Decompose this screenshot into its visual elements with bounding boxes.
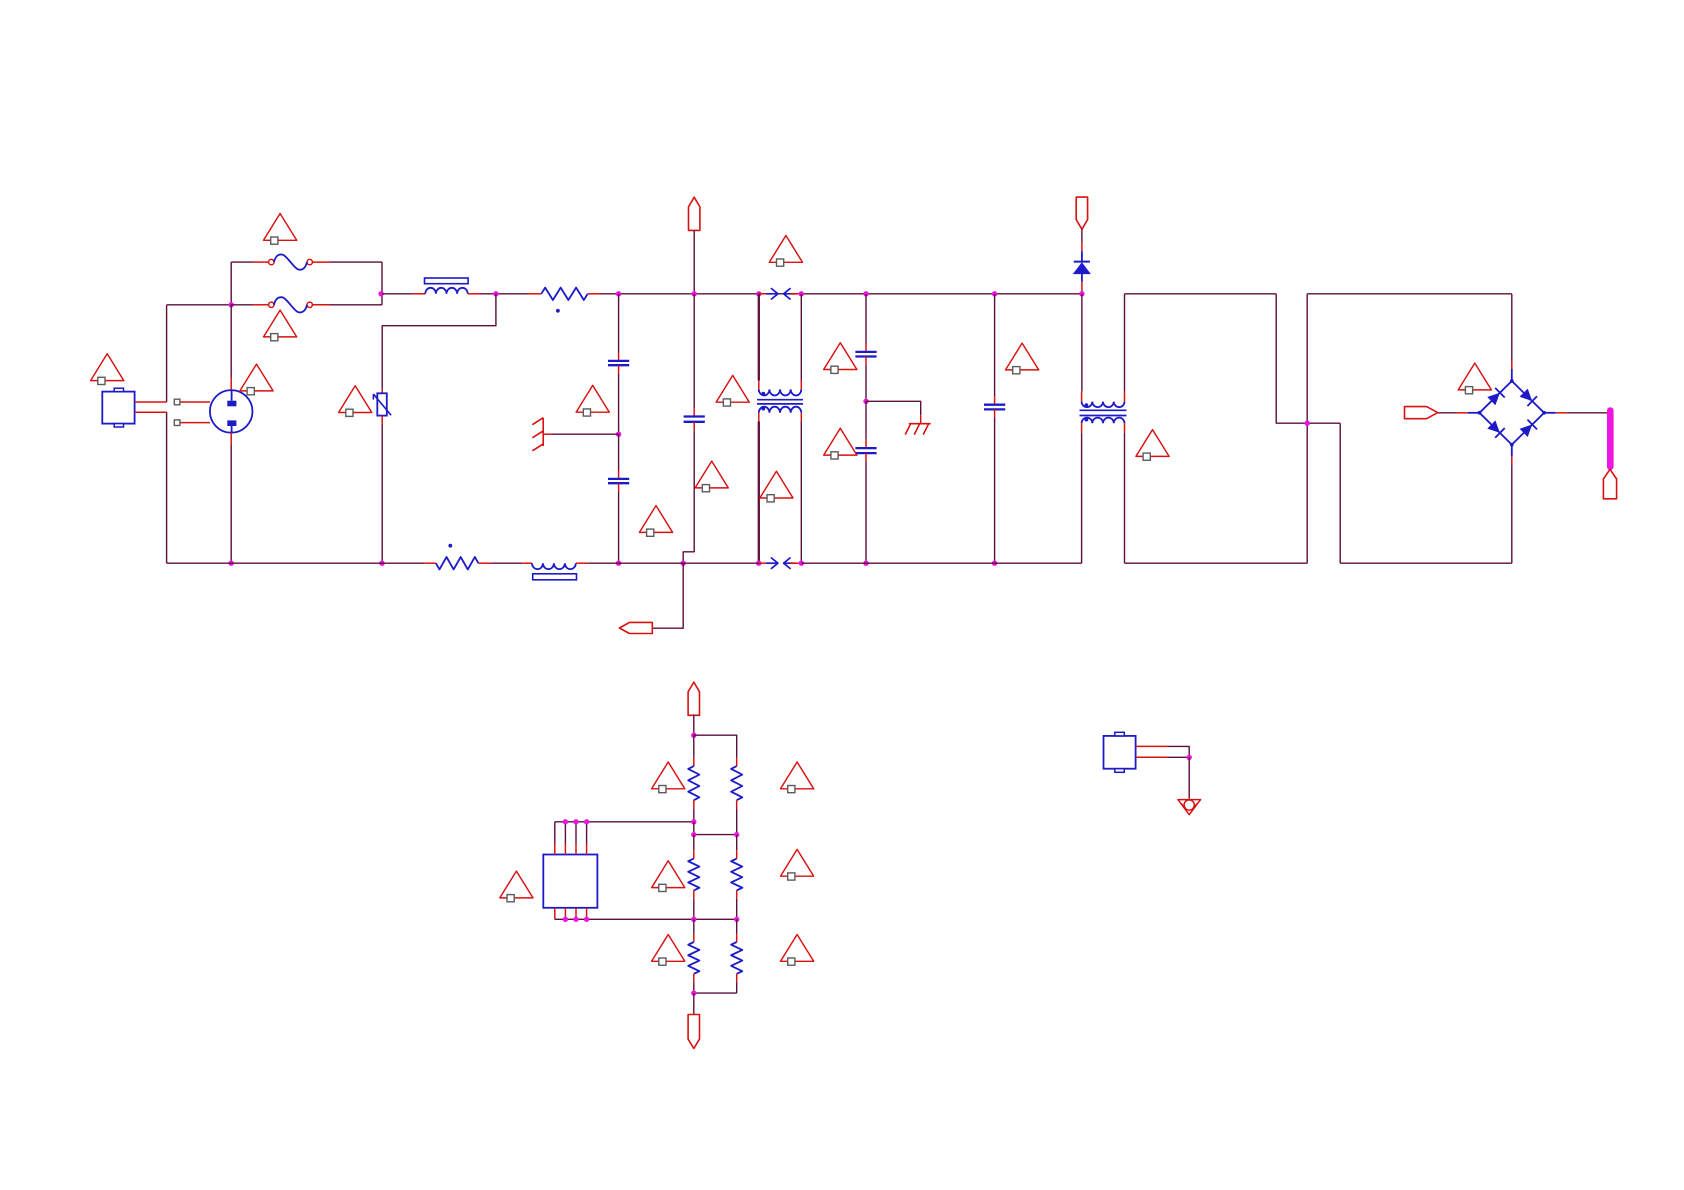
warning triangle below F2 xyxy=(264,310,297,337)
wire flag to D1 xyxy=(1081,229,1083,242)
wire IC top bus xyxy=(555,821,694,823)
wire T2 secondary right down xyxy=(1124,433,1126,563)
fuse F1 xyxy=(269,259,274,264)
pin C4 top xyxy=(865,344,867,352)
net flag (down) above D1 xyxy=(1076,197,1087,229)
wire U1 top pin 4 to bus xyxy=(586,822,588,844)
junction at jog crossing xyxy=(1305,421,1310,426)
junction lamp bottom on rail xyxy=(229,561,234,566)
bridge diode bottom-right xyxy=(1520,425,1533,438)
warning triangle chain MR xyxy=(781,849,814,876)
bridge bottom lead xyxy=(1511,445,1513,457)
pin R4 (right chain 1) pin2 xyxy=(736,800,738,808)
resistor R6 (right chain 2) xyxy=(731,859,742,891)
pin resistor R1 pin1 xyxy=(528,293,541,295)
resistor R3 (left chain 1) xyxy=(688,766,699,800)
pin T2 secondary left xyxy=(1081,423,1083,433)
wire bridge bottom to rail xyxy=(1511,465,1513,564)
pin fuse F1 pin 1 xyxy=(253,261,269,263)
bridge diode left-bottom xyxy=(1487,420,1500,433)
wire U1 bottom pin 1 to bus corner xyxy=(554,917,556,920)
wire fuse-block right vertical xyxy=(381,262,383,305)
T1 primary dot xyxy=(761,392,765,396)
pin T2 primary left xyxy=(1081,392,1083,402)
wire bottom link xyxy=(694,992,737,994)
pin U1 top pin 4 xyxy=(586,844,588,855)
transformer T1 primary winding xyxy=(759,389,802,395)
pin C4 bottom xyxy=(865,357,867,365)
wire bottom rail seg B xyxy=(492,562,523,564)
chevron > top xyxy=(771,288,778,299)
wire chassis gnd to C1C2 node xyxy=(552,433,619,435)
wire J1 pin2 down to bottom rail xyxy=(166,412,168,563)
junction rail left of gap xyxy=(756,291,761,296)
pin C1 bottom xyxy=(618,365,620,373)
junction flag stem on rail xyxy=(692,291,697,296)
wire R8 (right chain 3) bottom lead xyxy=(736,982,738,993)
wire T1 primary right down xyxy=(800,294,802,381)
junction J2 node xyxy=(1187,755,1192,760)
T1 secondary dot xyxy=(761,407,765,411)
pin T1 primary right xyxy=(800,381,802,390)
junction rail at C1 chain xyxy=(616,291,621,296)
varistor RV1 xyxy=(377,393,387,415)
junction bottom bus right chain xyxy=(734,917,739,922)
pin J2 pin 1 xyxy=(1136,745,1168,747)
pin stub left of bottom chevrons xyxy=(759,562,772,564)
warning triangle right of C6 xyxy=(1006,343,1039,370)
chevron < bottom xyxy=(784,558,791,569)
junction feedback top node xyxy=(691,733,696,738)
capacitor C4 xyxy=(855,351,876,353)
resistor R5 (left chain 2) xyxy=(688,859,699,891)
wire D1 to rail junction xyxy=(1081,290,1083,294)
warning triangle chain TL xyxy=(652,762,685,789)
junction rail at fuse block xyxy=(378,291,383,296)
capacitor C1 xyxy=(608,360,629,362)
warning triangle below-left of T1 xyxy=(695,461,728,488)
pin1 dot marker of R2 xyxy=(448,544,452,548)
warning triangle near C3 bottom xyxy=(639,506,672,533)
resistor R4 (right chain 1) xyxy=(731,766,742,800)
unconnected-pin square lamp pin xyxy=(174,399,180,405)
resistor R8 (right chain 3) xyxy=(731,942,742,974)
capacitor C3 xyxy=(684,415,705,417)
pin C3 bottom xyxy=(693,422,695,430)
gnd net tag (left-pointing) xyxy=(619,622,652,633)
warning triangle below T2 xyxy=(1136,430,1169,457)
junction C2 on bottom rail xyxy=(616,561,621,566)
pin U1 bottom pin 3 xyxy=(575,908,577,919)
warning triangle above F1 xyxy=(264,214,297,241)
wire cross link mid xyxy=(694,834,737,836)
wire flag stem xyxy=(693,230,695,293)
wire U1 top pin 2 to bus xyxy=(564,822,566,844)
wire top rail seg A xyxy=(382,293,412,295)
pin C3 top xyxy=(693,408,695,416)
pin U1 top pin 2 xyxy=(564,844,566,855)
wire to gnd tag xyxy=(652,563,683,628)
pin fuse F2 pin 1 xyxy=(253,304,269,306)
wire top rail seg C xyxy=(601,293,1082,295)
wire box1 right edge xyxy=(1276,294,1340,423)
protective earth symbol xyxy=(1178,800,1201,815)
wire bottom rail seg D xyxy=(801,562,1081,564)
bridge top lead xyxy=(1511,369,1513,381)
wire R3 (left chain 1) bottom lead xyxy=(693,809,695,822)
bridge diode top-right xyxy=(1520,389,1533,402)
wire C3 bottom jog to rail xyxy=(683,430,694,563)
junction fuse-block left node xyxy=(229,302,234,307)
connector J2 body xyxy=(1104,736,1136,769)
net flag (up) at top mid xyxy=(689,197,700,230)
pin R6 (right chain 2) pin1 xyxy=(736,850,738,858)
warning triangle left of J1 xyxy=(91,354,124,381)
wire R6 (right chain 2) bottom lead xyxy=(736,899,738,920)
wire to earth gnd xyxy=(866,401,921,415)
junction C5 on bottom rail xyxy=(863,561,868,566)
pin R5 (left chain 2) pin1 xyxy=(693,850,695,858)
pin lamp bottom pin xyxy=(230,433,232,445)
wire U1 bottom pin 3 to bus xyxy=(575,917,577,920)
pin U1 bottom pin 2 xyxy=(564,908,566,919)
wire U1 top pin 1 to bus corner xyxy=(554,822,556,844)
wire fuse F2 row right stub xyxy=(330,304,382,306)
pin choke L1 pin2 xyxy=(468,293,481,295)
wire box1 bottom edge xyxy=(1125,562,1308,564)
pin C5 top xyxy=(865,440,867,448)
bridge BR1 diamond outline xyxy=(1480,381,1545,445)
pin R6 (right chain 2) pin2 xyxy=(736,890,738,898)
highlight bar (magenta) xyxy=(1607,411,1614,467)
pin U1 bottom pin 1 xyxy=(554,908,556,919)
wire lamp top from fuse node xyxy=(230,305,232,378)
wire U1 top pin 3 to bus xyxy=(575,822,577,844)
junction mid C4C5 xyxy=(863,399,868,404)
pin T1 secondary right xyxy=(800,413,802,422)
pin C2 bottom xyxy=(618,483,620,491)
pin fuse F2 pin 2 xyxy=(312,304,330,306)
wire T2 primary right up xyxy=(1124,294,1126,392)
wire left chain between nodes xyxy=(693,822,695,835)
junction C3 chain on bottom rail xyxy=(681,561,686,566)
wire x1340 vertical xyxy=(1339,423,1341,563)
pin varistor RV1 bottom xyxy=(381,416,383,424)
wire box1 top edge xyxy=(1125,293,1277,295)
pin earth gnd xyxy=(920,415,922,423)
capacitor C5 xyxy=(855,447,876,449)
junction left chain mid1 xyxy=(691,819,696,824)
connector J1 body xyxy=(102,392,134,424)
bridge vertex dots xyxy=(1510,379,1514,383)
pin U1 bottom pin 4 xyxy=(586,908,588,919)
junction C6 on bottom rail xyxy=(992,561,997,566)
transformer T1 secondary winding xyxy=(759,407,802,413)
wire bridge right to bar xyxy=(1567,412,1608,414)
wire C4 top xyxy=(865,294,867,344)
unconnected-pin square lamp pin2 xyxy=(174,420,180,426)
wire R4 (right chain 1) bottom lead xyxy=(736,809,738,835)
pin C2 top xyxy=(618,471,620,479)
pin J1 pin 2 xyxy=(135,411,167,413)
pin resistor R2 pin2 xyxy=(478,562,491,564)
wire loop from rail down-left xyxy=(382,294,496,390)
bridge right lead xyxy=(1544,412,1556,414)
warning triangle at T1 secondary xyxy=(760,471,793,498)
transformer T2 secondary winding xyxy=(1082,418,1125,424)
pin choke L2 pin2 xyxy=(576,562,588,564)
diode D1 xyxy=(1081,251,1083,261)
wire C1 top xyxy=(618,294,620,353)
pin R4 (right chain 1) pin1 xyxy=(736,758,738,766)
wire from connector to fuse F2 xyxy=(167,304,232,306)
warning triangle right of C4 xyxy=(824,343,857,370)
pin1 dot marker of R1 xyxy=(556,309,560,313)
net flag (down) feedback bottom xyxy=(688,1015,699,1049)
junction U1 bottom pin 3 xyxy=(573,917,578,922)
junction rail at C6 xyxy=(992,291,997,296)
warning triangle at chassis gnd xyxy=(576,385,609,412)
wire R3 (left chain 1) top lead xyxy=(693,735,695,758)
warning triangle above T1 xyxy=(769,236,802,263)
wire flag stem to node xyxy=(693,714,695,735)
junction bottom bus left chain xyxy=(691,917,696,922)
wire J2 node to earth xyxy=(1188,757,1190,797)
pin J1 pin 1 xyxy=(135,401,167,403)
wire C5 bottom to rail xyxy=(865,462,867,564)
capacitor C2 xyxy=(608,478,629,480)
pin D1 anode xyxy=(1081,282,1083,290)
wire tag to bridge left xyxy=(1438,412,1457,414)
pin R7 (left chain 3) pin1 xyxy=(693,934,695,942)
wire IC bottom bus xyxy=(555,918,737,920)
pin resistor R1 pin2 xyxy=(588,293,601,295)
pin R7 (left chain 3) pin2 xyxy=(693,974,695,982)
pin C1 top xyxy=(618,353,620,361)
wire C4-C5 middle xyxy=(865,365,867,401)
pin C6 top xyxy=(994,396,996,404)
wire top rail seg B xyxy=(481,293,529,295)
wire box2 top edge xyxy=(1307,293,1512,295)
pin stub left of top chevrons xyxy=(759,293,772,295)
junction bottom rail left of gap xyxy=(756,561,761,566)
wire R5 (left chain 2) bottom lead xyxy=(693,899,695,920)
wire fuse-block left vertical xyxy=(230,262,232,305)
wire C5 top xyxy=(865,401,867,439)
pin U1 top pin 1 xyxy=(554,844,556,855)
warning triangle left of RV1 xyxy=(339,386,372,413)
pin C5 bottom xyxy=(865,453,867,461)
wire R7 (left chain 3) top lead xyxy=(693,919,695,933)
wire R5 (left chain 2) top lead xyxy=(693,835,695,851)
junction cross right xyxy=(734,832,739,837)
net flag (up) feedback top xyxy=(688,682,699,715)
pin R3 (left chain 1) pin2 xyxy=(693,800,695,808)
junction U1 top pin 3 xyxy=(573,819,578,824)
ferrite bar of L1 xyxy=(425,278,469,284)
chassis ground symbol xyxy=(542,418,544,446)
bridge left lead xyxy=(1468,412,1480,414)
warning triangle near lamp xyxy=(240,364,273,391)
wire bottom rail seg A xyxy=(167,562,425,564)
pin lamp NC side pin 1 xyxy=(180,401,210,403)
pin J2 pin 2 xyxy=(1136,756,1168,758)
warning triangle right of C5 xyxy=(824,428,857,455)
warning triangle chain BR xyxy=(781,935,814,962)
wire crossing vertical x1307 xyxy=(1306,294,1308,563)
resistor R7 (left chain 3) xyxy=(688,942,699,974)
junction mid C1C2 xyxy=(616,432,621,437)
warning triangle chain TR xyxy=(781,762,814,789)
wire C3 top xyxy=(693,294,695,408)
neon lamp NE1 body xyxy=(210,390,253,433)
wire R8 (right chain 3) top lead xyxy=(736,919,738,933)
fuse F2 xyxy=(269,302,274,307)
wire J2 pin2 to node xyxy=(1168,756,1190,758)
T2 secondary dot xyxy=(1085,418,1089,422)
wire C2 top xyxy=(618,434,620,470)
wire J2 pin1 loop xyxy=(1168,746,1190,757)
pin D1 cathode xyxy=(1081,243,1083,252)
wire T1 secondary left down xyxy=(758,421,760,563)
wire U1 bottom pin 2 to bus xyxy=(564,917,566,920)
wire C6 bottom to rail xyxy=(994,418,996,563)
chevron < top xyxy=(784,288,791,299)
junction feedback bottom node xyxy=(691,990,696,995)
junction U1 top pin 2 xyxy=(563,819,568,824)
pin C6 bottom xyxy=(994,409,996,417)
pin R3 (left chain 1) pin1 xyxy=(693,758,695,766)
net tag (right-pointing) at bridge input xyxy=(1405,407,1438,419)
pin T1 secondary left xyxy=(758,413,760,422)
transformer T1 core xyxy=(757,399,803,401)
wire fuse F1 row left stub xyxy=(231,261,253,263)
junction U1 top pin 4 xyxy=(584,819,589,824)
wire fuse F2 row left stub xyxy=(231,304,253,306)
net flag (up) below bar xyxy=(1603,469,1616,499)
wire varistor to bottom rail xyxy=(381,423,383,563)
wire lamp bottom to rail xyxy=(230,445,232,563)
warning triangle chain BL xyxy=(652,935,685,962)
transformer T2 core xyxy=(1080,409,1127,411)
pin resistor R2 pin1 xyxy=(424,562,436,564)
wire top node to right chain xyxy=(694,735,737,758)
wire T2 secondary left to bottom rail xyxy=(1081,433,1083,563)
chevron > bottom xyxy=(771,558,778,569)
wire U1 bottom pin 4 to bus xyxy=(586,917,588,920)
pin choke L2 pin1 xyxy=(522,562,532,564)
pin T2 secondary right xyxy=(1124,423,1126,433)
pin R8 (right chain 3) pin2 xyxy=(736,974,738,982)
wire R7 (left chain 3) bottom lead xyxy=(693,982,695,993)
resistor R1 xyxy=(541,288,587,300)
inductor L1 (EMI choke) xyxy=(425,288,467,294)
wire box2 bottom edge xyxy=(1340,562,1512,564)
wire C1-C2 middle xyxy=(618,374,620,435)
junction rail end at D1/T2 xyxy=(1079,291,1084,296)
pin lamp top pin xyxy=(230,378,232,391)
wire T2 primary left down xyxy=(1081,294,1083,392)
transformer T2 primary winding xyxy=(1082,402,1125,408)
pin chassis gnd xyxy=(543,433,551,435)
junction rail right of gap xyxy=(799,291,804,296)
pin R8 (right chain 3) pin1 xyxy=(736,934,738,942)
wire J1 pin1 up to fuse row xyxy=(166,305,168,402)
junction U1 bottom pin 4 xyxy=(584,917,589,922)
IC U1 body xyxy=(543,855,597,908)
pin T2 primary right xyxy=(1124,392,1126,402)
capacitor C6 xyxy=(984,404,1005,406)
pin stub right of top chevrons xyxy=(790,293,801,295)
pin fuse F1 pin 2 xyxy=(312,261,330,263)
pin lamp NC side pin 2 xyxy=(180,422,210,424)
junction rail at x495.9 xyxy=(493,291,498,296)
T2 primary dot xyxy=(1085,403,1089,407)
inductor L2 (EMI choke) xyxy=(532,563,576,569)
pin R5 (left chain 2) pin2 xyxy=(693,890,695,898)
warning triangle chain ML xyxy=(652,861,685,888)
junction rail at C4 chain xyxy=(863,291,868,296)
warning triangle at bridge xyxy=(1458,363,1491,390)
junction varistor bottom on rail xyxy=(379,561,384,566)
pin stub right of bottom chevrons xyxy=(790,562,801,564)
junction cross left xyxy=(691,832,696,837)
pin T1 primary left xyxy=(758,381,760,390)
warning triangle left of U1 xyxy=(500,871,533,898)
wire T1 primary left down xyxy=(758,294,760,381)
ferrite bar of L2 xyxy=(533,574,577,580)
resistor R2 xyxy=(436,557,479,569)
bridge diode left-top xyxy=(1487,393,1500,406)
wire fuse F1 row right stub xyxy=(330,261,382,263)
earth ground symbol xyxy=(909,423,931,425)
pin earth lead xyxy=(1188,798,1190,800)
wire bridge top to box2 xyxy=(1511,294,1513,361)
wire C2 bottom to rail xyxy=(618,492,620,564)
wire bottom rail seg C xyxy=(588,562,759,564)
pin varistor RV1 top xyxy=(381,390,383,394)
wire C6 top xyxy=(994,294,996,397)
wire stem to bottom flag xyxy=(693,993,695,1014)
junction U1 bottom pin 2 xyxy=(563,917,568,922)
pin U1 top pin 3 xyxy=(575,844,577,855)
wire T1 secondary right down xyxy=(800,421,802,563)
pin choke L1 pin1 xyxy=(412,293,425,295)
junction bottom rail right of gap xyxy=(799,561,804,566)
warning triangle left of T1 xyxy=(716,375,749,402)
wire R6 (right chain 2) top lead xyxy=(736,835,738,851)
